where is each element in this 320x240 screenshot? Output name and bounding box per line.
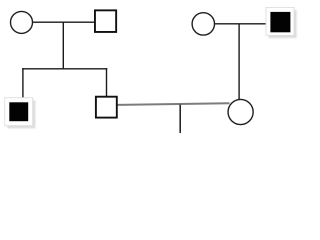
wire: sibling bar <box>22 68 107 70</box>
wire: drop to son (square) <box>106 68 108 96</box>
wire: descent from right couple to daughter <box>238 24 240 100</box>
wire: marriage line (gray) bottom couple <box>118 103 230 105</box>
affected grandfather right (filled square, framed photo with shadow) <box>266 7 297 38</box>
circle: grandmother left (unaffected female) <box>11 11 33 33</box>
square: grandfather left (unaffected male) <box>95 10 116 32</box>
wire: descent from left couple <box>62 22 64 69</box>
square: father (unaffected male, bottom middle) <box>96 97 117 118</box>
wire: couple line grandparents left <box>31 21 95 23</box>
affected son (filled square, framed photo with shadow) <box>5 98 36 129</box>
circle: grandmother right (unaffected female) <box>192 13 214 35</box>
wire: child stub below bottom couple <box>179 105 181 133</box>
wire: couple line grandparents right <box>214 23 267 25</box>
circle: mother (unaffected female, bottom right) <box>228 99 253 124</box>
wire: drop to affected son <box>22 68 24 98</box>
